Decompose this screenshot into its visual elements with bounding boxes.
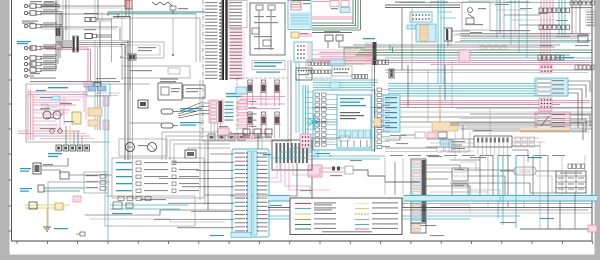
yellow component box <box>72 112 81 124</box>
grey riser bundle x95-100 <box>95 21 100 130</box>
pink component cluster top <box>330 1 350 13</box>
pink band pair <box>383 101 590 103</box>
second pink riser <box>46 50 91 91</box>
top black bus with labels <box>385 2 460 8</box>
cyan bus above monitor <box>313 80 378 88</box>
pin bundles below strip <box>208 123 245 140</box>
monitor exit wires to ECM area <box>270 148 313 170</box>
pink relay strip <box>535 112 570 129</box>
red line y104.7 <box>383 104 560 106</box>
cyan relay strip <box>535 78 568 96</box>
black verticals x500-516 <box>500 0 515 33</box>
ECM risers from top <box>258 120 262 149</box>
connector bank outline <box>272 140 312 170</box>
diode block component <box>500 167 556 175</box>
relay panel header <box>252 61 285 73</box>
pink box on header <box>84 82 93 87</box>
connector bank pin bars <box>276 143 308 163</box>
wire bus below fuse <box>113 17 130 19</box>
long verticals below monitor area <box>385 158 403 207</box>
black pair y45-47 <box>340 45 560 47</box>
more top-left vertical stubs <box>95 0 102 21</box>
wires from sensor <box>41 158 68 174</box>
ECM left pin rows <box>235 152 248 231</box>
black pin block top right <box>575 65 594 70</box>
pin strip left label column <box>205 2 218 79</box>
monitor bottom cyan cells <box>339 130 370 147</box>
wires from pink strip right <box>570 115 590 140</box>
tan box bottom right band <box>432 122 458 131</box>
relay panel dashed border <box>237 78 288 140</box>
wires into bank from right <box>512 138 545 146</box>
pin block lower right <box>538 55 564 60</box>
ECM right pin rows <box>257 152 267 231</box>
top right horizontal connectors <box>497 10 560 25</box>
right edge pin column <box>586 10 596 26</box>
right margin grey strip <box>595 0 600 260</box>
grey bus lines y34-42 right <box>455 34 590 42</box>
pink connector block right side <box>103 96 109 130</box>
pin strip pink backing <box>229 30 246 80</box>
pink component y130 right <box>218 126 229 135</box>
orange vertical wire <box>439 85 441 130</box>
top right tiny blocks <box>570 1 594 8</box>
bottom tiny symbol left <box>76 232 85 236</box>
yellow relay block <box>291 32 312 38</box>
black bus lines y120-130 right <box>450 121 592 133</box>
black lines right half y105-132 <box>450 109 592 132</box>
black vertical below pink cluster <box>311 177 313 198</box>
extra verticals mid right <box>455 108 490 160</box>
cyan label lower right <box>556 57 574 58</box>
tiny parts row y197 <box>73 196 151 202</box>
small sensor row 8 <box>25 73 40 77</box>
black verticals in band zone <box>408 60 452 122</box>
cyan vertical group x497-530 <box>497 0 527 58</box>
pink bus verticals left <box>28 90 33 140</box>
pin strip densify <box>223 0 228 80</box>
service box A <box>158 81 182 100</box>
harness wires right of inline connector <box>79 41 128 47</box>
connector at x86 y36 <box>84 29 112 39</box>
light green panel <box>344 48 370 64</box>
switch list panel <box>112 158 204 198</box>
cyan box in relay panel <box>236 87 247 94</box>
pink connector strip mid <box>209 100 223 123</box>
black riser pair x125-132 lower <box>125 75 133 200</box>
wires fanning into pink strip <box>178 103 209 118</box>
monitor inner box <box>337 95 371 148</box>
cyan relay box top <box>86 84 110 96</box>
legend left column <box>295 202 336 229</box>
bottom black bus lines <box>268 208 592 214</box>
wires fuse trio to bank <box>230 134 272 140</box>
cylinder connector 2 <box>161 122 202 128</box>
wire bundle horizontal to inline connector <box>56 41 72 48</box>
black risers x400-412 <box>402 8 412 83</box>
fuse trio <box>243 129 272 138</box>
tan band right <box>520 128 570 133</box>
small box mid <box>60 172 112 179</box>
page border right <box>591 0 593 241</box>
box header text row <box>30 81 120 88</box>
pink verticals inside box <box>60 92 86 131</box>
monitor outer cyan box <box>313 90 375 150</box>
cyan riser bundle right <box>559 0 565 35</box>
small table stack 1 <box>452 168 468 181</box>
cyan wire pair below monitor <box>306 155 385 159</box>
relay box components <box>252 5 278 50</box>
tall connector block extension <box>411 223 426 233</box>
cyan riser pair x296-299 <box>296 62 299 133</box>
top right text bits <box>470 4 568 33</box>
green bundle turning east <box>312 23 361 30</box>
pink step wires below bank <box>255 163 330 194</box>
pink riser bundle right <box>541 0 553 40</box>
relay panel bottom pink exits <box>232 134 261 138</box>
pin strip left extra ticks <box>219 3 221 80</box>
bottom line far right <box>520 228 592 230</box>
pink label boxes column <box>238 100 257 128</box>
pin block row y75 <box>352 75 368 79</box>
tan box on riser <box>374 118 381 126</box>
left margin grey strip <box>0 0 10 260</box>
cyan risers x105-110 <box>105 96 108 240</box>
connector bank mid-right outline <box>474 136 512 155</box>
wire bundle risers left <box>56 12 62 70</box>
legend footnote <box>322 231 372 232</box>
inline connector small upper <box>56 28 61 36</box>
zone ticks bottom edge <box>17 241 593 244</box>
cyan wire y40 right <box>460 40 592 42</box>
cyan bus left tail <box>268 216 520 219</box>
monitor cyan wire mesh extra <box>306 92 313 145</box>
relay panel bottom border <box>202 100 290 141</box>
green wire riser bundle <box>353 0 361 30</box>
connector row 5 <box>24 54 57 60</box>
pin box above cyan strip <box>296 68 312 80</box>
lower assembly box <box>48 182 110 228</box>
grey details inside box <box>46 110 63 133</box>
green line top right <box>400 2 592 4</box>
long step wires to ECM <box>85 210 232 222</box>
cylinder connector 1 <box>161 108 202 114</box>
black bus y70 right half <box>385 70 592 73</box>
pin block above table <box>568 164 585 169</box>
machine harness box outline (large) <box>112 18 201 62</box>
resistor network inside top box <box>152 2 188 14</box>
extra top-left horizontals to riser <box>41 6 125 41</box>
pink cluster below monitor <box>308 165 353 177</box>
label panel left <box>84 172 108 193</box>
cyan label lower left <box>20 188 32 192</box>
black band lines below <box>312 108 592 128</box>
relay circle 2 <box>53 111 61 119</box>
small table stack 2 <box>452 184 468 197</box>
pin row block 1 <box>539 8 569 13</box>
black risers far right <box>572 0 580 33</box>
more pink left column lines <box>18 96 33 134</box>
bottom mid panel <box>105 196 195 226</box>
cyan label box top <box>330 60 345 65</box>
ECM outer cyan border <box>232 149 269 237</box>
pin strip right label column <box>230 2 243 79</box>
cyan verticals from bank <box>498 155 516 207</box>
white box left of bank <box>449 139 469 152</box>
small sensor x390 y70 <box>389 69 394 78</box>
monitor cyan text lines <box>340 98 366 119</box>
pink wire pair horizontal <box>312 17 353 19</box>
ECM left cyan bar <box>248 151 252 235</box>
wires from pink block east <box>311 136 420 142</box>
horizontal connector pair left of box <box>84 13 111 22</box>
right zone extra step wires <box>430 150 528 213</box>
riser stubs to top edge <box>63 0 69 42</box>
bus wires into bank from left <box>426 139 474 151</box>
legend right column <box>355 202 398 229</box>
relay K7 <box>274 112 281 138</box>
extra pink harness lines <box>33 97 94 139</box>
cyan box y82 <box>330 82 340 88</box>
text cluster far right y33-40 <box>540 33 589 46</box>
connector sensor row 1 (y=5) <box>24 1 60 8</box>
vertical line x173 <box>172 18 174 55</box>
small texts in harness box <box>40 97 74 129</box>
long vertical x205-210 pair <box>205 141 208 210</box>
connector row 6 <box>24 60 57 66</box>
pink risers x540-552 lower <box>541 40 550 65</box>
connector sensor row 3 <box>24 22 62 28</box>
harness boundary dash-dot line <box>202 0 204 137</box>
inner nested boxes (relay logic) <box>120 42 164 60</box>
tan component box <box>88 108 102 116</box>
teal wire pair to cyan box <box>108 12 205 16</box>
cyan short links top right <box>438 12 456 18</box>
text smudge labels scatter B <box>210 153 554 236</box>
relay K4 <box>274 80 281 106</box>
sensor component left <box>20 163 53 174</box>
relay K2 <box>247 80 254 106</box>
step wires bottom right <box>426 160 552 203</box>
long vertical x200 <box>199 80 201 200</box>
lower cyan block with pin grid <box>294 42 312 62</box>
component on black bus <box>578 35 588 42</box>
black bus y33-40 right <box>460 30 590 39</box>
pin strip top-right box <box>229 1 247 28</box>
connector bank bar with pink fan <box>312 42 377 65</box>
tan box 2 <box>88 120 98 126</box>
pin box upper mid <box>332 66 352 76</box>
green bundle east y50-57 <box>356 50 593 55</box>
page border bottom <box>12 240 593 242</box>
cyan pin box upper <box>410 12 432 22</box>
component row y133 right <box>385 132 447 140</box>
black box on header <box>94 83 101 87</box>
connector pressure switch row 4 <box>24 44 57 50</box>
verticals dropping to bottom bus <box>480 155 524 228</box>
small box rows right of bank <box>515 137 535 147</box>
ECM fan-out wires west <box>154 154 234 228</box>
mid horizontal runs y160-200 <box>426 160 488 200</box>
riser bundle top (to y=0) <box>56 0 66 40</box>
cyan C1 pin list box <box>383 95 400 132</box>
page border left <box>11 0 13 241</box>
riser bundle x372-376 <box>372 58 375 152</box>
staircase wire to right <box>353 170 420 182</box>
relay table right <box>556 171 586 193</box>
small cyan box left <box>407 25 415 29</box>
flasher block (red grid) <box>288 1 311 30</box>
junction dot x173 <box>172 54 174 56</box>
pin strip connector bars <box>222 0 228 80</box>
connector sensor row 2 <box>24 9 62 15</box>
bottom margin grey strip <box>0 255 600 260</box>
pink strip diagonal arrow <box>541 116 549 126</box>
zone ticks left edge <box>9 55 12 231</box>
monitor right pin column <box>377 88 390 149</box>
wires right of connector block <box>426 165 520 195</box>
nested harness corners <box>162 132 232 165</box>
grey wires inside box right <box>95 93 120 96</box>
pink pin block top <box>540 65 552 73</box>
grey line below bus <box>300 203 592 205</box>
cyan bits inside box <box>36 90 60 109</box>
bright cyan vertical strip <box>303 85 308 140</box>
inline connector J1 (vertical bars) <box>72 36 79 52</box>
pink wire from row 4 to riser <box>44 48 88 90</box>
cyan line y58 <box>385 57 592 59</box>
connector bar right <box>444 28 470 41</box>
wires from cyan strip stepping right <box>568 81 590 128</box>
black wire below bank <box>230 163 297 196</box>
legend box frame <box>290 198 402 235</box>
switch components with drops <box>324 31 343 48</box>
teal wires lower <box>38 185 85 192</box>
ground symbol <box>43 227 68 231</box>
pink trio y60-64 <box>312 61 592 65</box>
pink component bottom right corner <box>588 225 597 232</box>
cyan label above bank <box>363 38 375 39</box>
pink connector block x300 <box>300 134 311 148</box>
bottom cyan bus band <box>268 196 597 202</box>
relay grid pink crossbars <box>236 97 285 109</box>
pink pin block mid <box>539 98 552 111</box>
cyan label box y141 <box>437 140 460 152</box>
wire label text row y155 <box>390 155 565 156</box>
gauge panel box <box>119 139 167 156</box>
small blocks right y46-50 <box>480 46 506 50</box>
vertical line x196 <box>195 14 197 62</box>
pin box grid upper left <box>306 60 332 78</box>
text smudge labels scatter A <box>30 78 542 159</box>
monitor left pin columns <box>315 93 337 146</box>
component x185-195 y150 <box>185 150 196 158</box>
horizontal wire y122 to right <box>130 122 162 124</box>
teal yellow risers into connector row <box>66 126 82 145</box>
service box B <box>183 85 205 98</box>
relay K3 <box>260 80 267 106</box>
monitor exit cyan lines bottom <box>308 150 318 158</box>
fuse block F1 (red striped) <box>125 0 132 16</box>
cyan labels right of strip <box>225 102 234 121</box>
green stub marks <box>390 45 393 53</box>
pin row block 2 <box>539 25 569 30</box>
pink riser pair x88 continues <box>88 52 91 84</box>
cyan label left of bank <box>263 154 271 155</box>
control box with symbols <box>462 2 490 30</box>
relay circle 1 <box>43 111 51 119</box>
inner box lower (bottom cut) <box>122 66 190 78</box>
cyan star junction <box>307 114 321 130</box>
cyan label above pink strip <box>226 93 247 97</box>
ECM right cyan bar <box>253 151 257 235</box>
ECM bottom cyan label <box>231 233 251 238</box>
pink bus horizontals <box>28 92 90 136</box>
label text above row 3 <box>22 21 38 24</box>
wire stepping to table <box>450 183 556 193</box>
wires left from label boxes <box>385 148 437 152</box>
pink box left lower <box>459 50 470 61</box>
top strip colored segments <box>292 1 530 3</box>
relay K6 <box>260 112 267 138</box>
tall connector block right <box>411 159 426 223</box>
grey riser pair x288-293 <box>288 60 291 145</box>
connector row below harness box <box>48 145 90 157</box>
yellow circuit wires <box>25 202 70 227</box>
cyan box with tan strip <box>416 24 436 42</box>
verticals bottom right zone <box>533 142 585 229</box>
bottom bus verticals <box>540 201 575 229</box>
black wire y32 <box>312 32 352 34</box>
black vertical pair x448-452 <box>448 28 451 46</box>
black wire bundle turning at x125-132 <box>120 5 133 90</box>
relay K5 <box>247 112 254 138</box>
connector row 7 <box>24 66 57 72</box>
component on risers <box>138 100 148 108</box>
cab harness box outline <box>26 84 150 142</box>
pin block top right of monitor <box>375 60 389 65</box>
main cyan harness band <box>388 84 568 97</box>
relay box K1 outline <box>250 3 285 55</box>
pink fan extra lines <box>315 53 372 64</box>
cyan riser bundle x437-445 <box>438 0 444 83</box>
cyan label MAIN PUMP <box>17 41 31 44</box>
